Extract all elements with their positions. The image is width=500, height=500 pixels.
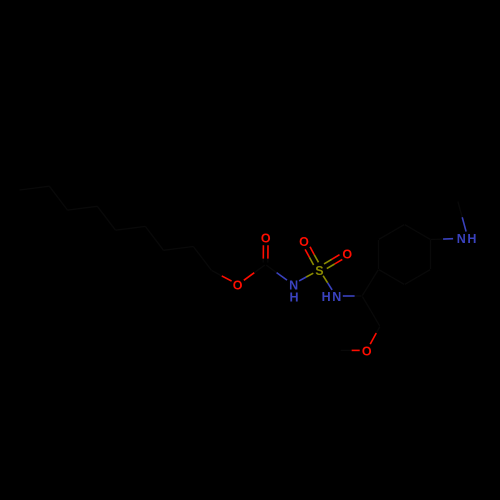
ring bond 1 [378,255,380,270]
bond ring-N3 [431,238,444,240]
chain bond C8-C9 [34,186,49,188]
double bond S=O left [314,255,318,263]
ring bond 5 [418,270,431,277]
chain bond C2-C3 [178,247,193,249]
bond O ester-C carbonyl [244,273,255,281]
bond CB-O methoxy [370,333,376,344]
svg-text:O: O [261,231,271,245]
chain bond C7-C8 [58,198,67,210]
chain bond C4-C5 [130,226,145,228]
chain bond C3-C4 [154,238,163,250]
svg-text:S: S [315,264,323,278]
chain bond C6-C7 [82,206,97,208]
svg-text:N: N [457,232,466,246]
ring bond 3 [405,225,418,232]
ring bond 6 [392,277,405,284]
ring bond 4 [430,240,432,255]
svg-text:N: N [332,290,341,304]
svg-text:H: H [322,290,331,304]
bond N2-CA [343,295,355,297]
svg-text:O: O [233,279,243,293]
chain bond C5-C6 [106,218,115,230]
double bond S=O right [327,264,335,269]
bond CA-ring [362,283,370,296]
chain bond C1-C2 [202,258,211,270]
bond C1-O ester [212,271,222,276]
bond N3-CH3 [462,217,466,231]
svg-text:H: H [289,290,298,304]
svg-text:O: O [362,344,372,358]
svg-text:O: O [299,235,309,249]
bond N1-S [299,277,306,281]
bond S-N2 [323,276,328,283]
double bond C=O carbonyl [262,245,264,259]
bond CA-CB [362,296,371,311]
bond O-CH3 methoxy [352,349,360,351]
ring bond 2 [379,232,392,239]
svg-text:O: O [342,247,352,261]
svg-text:H: H [467,232,476,246]
bond C carbonyl-N1 [266,265,276,273]
